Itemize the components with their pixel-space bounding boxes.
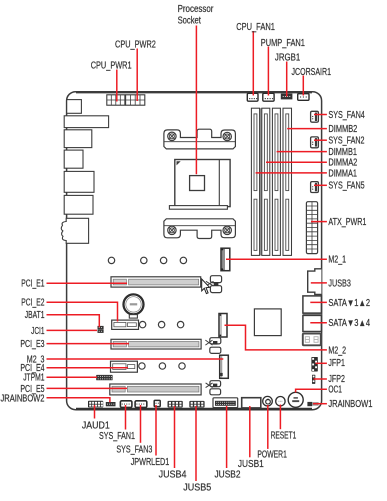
rear IO audio port xyxy=(61,218,88,243)
leader M2_3 xyxy=(47,358,224,360)
connector CPU_PWR2 xyxy=(126,95,145,105)
leader SYS_FAN5 xyxy=(314,184,327,186)
cpu bottom mounting bracket xyxy=(164,219,236,239)
leader PCI_E5 xyxy=(47,387,128,389)
svg-text:JPWRLED1: JPWRLED1 xyxy=(131,457,170,468)
PCI_E5 slot xyxy=(110,384,201,395)
jumper JCI1 xyxy=(98,330,104,333)
rear IO port 4 xyxy=(64,150,83,168)
leader SATA12 xyxy=(310,301,327,303)
svg-text:M2_2: M2_2 xyxy=(328,345,346,356)
leader PCI_E1 xyxy=(47,282,128,284)
leader Processor Socket xyxy=(195,26,197,175)
svg-text:JRAINBOW1: JRAINBOW1 xyxy=(328,399,372,410)
PCI_E1 slot xyxy=(111,277,201,287)
leader SATA34 xyxy=(310,322,327,324)
leader JUSB2 xyxy=(226,406,228,468)
connector JRAINBOW1 xyxy=(307,402,318,406)
PCI_E5 latch xyxy=(206,381,221,395)
svg-text:JCI1: JCI1 xyxy=(31,326,44,337)
svg-text:JUSB3: JUSB3 xyxy=(328,278,351,289)
PCI_E3 slot xyxy=(111,339,201,349)
header JFP1 xyxy=(311,357,317,372)
svg-text:JBAT1: JBAT1 xyxy=(25,310,45,321)
leader DIMMB1 xyxy=(277,151,327,153)
svg-text:PCI_E3: PCI_E3 xyxy=(20,339,44,350)
leader DIMMA1 xyxy=(256,172,327,174)
connector CPU_PWR1 xyxy=(107,95,125,105)
leader JUSB1 xyxy=(249,406,251,457)
svg-text:Socket: Socket xyxy=(178,16,202,27)
connector SATA12 xyxy=(303,296,322,313)
button RESET1 xyxy=(276,397,285,406)
PCI_E3 latch xyxy=(205,338,220,354)
svg-text:JAUD1: JAUD1 xyxy=(82,420,110,431)
connector SYS_FAN5 xyxy=(311,182,319,193)
rear IO port 1 xyxy=(67,100,82,114)
chipset xyxy=(254,309,281,336)
connector JUSB2 xyxy=(213,398,238,408)
svg-text:DIMMB1: DIMMB1 xyxy=(328,147,357,158)
SATA divider xyxy=(303,313,322,316)
connector JRGB1 xyxy=(281,94,292,99)
svg-text:POWER1: POWER1 xyxy=(257,450,287,461)
motherboard outline xyxy=(67,92,322,410)
svg-text:JFP2: JFP2 xyxy=(328,374,345,385)
leader CPU_FAN1 xyxy=(252,31,254,96)
PCI_E4 slot xyxy=(111,361,138,372)
battery BAT1 xyxy=(124,294,144,318)
M.2 connector M2_2 xyxy=(219,314,227,338)
leader PUMP_FAN1 xyxy=(267,47,269,96)
mouse cursor xyxy=(202,279,210,294)
header JFP2 xyxy=(312,375,315,384)
svg-text:ATX_PWR1: ATX_PWR1 xyxy=(328,217,366,228)
svg-text:OC1: OC1 xyxy=(328,385,342,396)
leader JCORSAIR1 xyxy=(302,76,304,96)
DIMM slots group xyxy=(251,108,291,255)
rear IO port 5 xyxy=(64,171,94,192)
leader RESET1 xyxy=(279,405,281,430)
jumper JBAT1 xyxy=(98,326,104,329)
mounting holes row 1 xyxy=(108,257,186,263)
M.2 connector M2_1 xyxy=(221,248,230,271)
leader JUSB5 xyxy=(195,406,197,481)
rear IO port 3 xyxy=(64,130,92,148)
svg-text:DIMMB2: DIMMB2 xyxy=(328,124,357,135)
leader JRGB1 xyxy=(286,62,288,97)
connector JUSB4 xyxy=(168,401,183,408)
svg-text:SYS_FAN3: SYS_FAN3 xyxy=(116,444,152,455)
leader ATX_PWR1 xyxy=(311,221,327,223)
PCI_E2 slot xyxy=(112,320,139,329)
leader JRAINBOW2 xyxy=(47,398,110,403)
svg-text:RESET1: RESET1 xyxy=(271,431,297,442)
M.2 connector M2_3 xyxy=(220,355,229,378)
leader JAUD1 xyxy=(94,405,96,419)
svg-text:DIMMA1: DIMMA1 xyxy=(328,168,357,179)
leader JRAINBOW1 xyxy=(313,403,327,405)
rear IO port 6 xyxy=(64,195,93,214)
svg-text:DIMMA2: DIMMA2 xyxy=(328,158,357,169)
leader JUSB3 xyxy=(311,282,327,284)
svg-text:JCORSAIR1: JCORSAIR1 xyxy=(292,67,332,78)
mounting holes row 3 xyxy=(139,363,186,369)
leader PCI_E4 xyxy=(47,367,129,369)
connector JCORSAIR1 xyxy=(298,94,309,101)
svg-text:JRAINBOW2: JRAINBOW2 xyxy=(1,393,45,404)
svg-text:JFP1: JFP1 xyxy=(328,358,345,369)
connector JUSB5 xyxy=(189,401,204,408)
leader SYS_FAN4 xyxy=(314,114,327,116)
mounting holes row 2 xyxy=(139,321,183,327)
leader JPWRLED1 xyxy=(155,405,157,456)
svg-text:JUSB4: JUSB4 xyxy=(159,470,187,481)
leader DIMMB2 xyxy=(287,128,327,130)
cpu top mounting bracket xyxy=(164,129,236,149)
svg-text:SYS_FAN4: SYS_FAN4 xyxy=(328,110,365,121)
leader CPU_PWR1 xyxy=(116,70,118,102)
button POWER1 xyxy=(263,396,273,406)
cpu socket xyxy=(169,160,230,210)
svg-text:SATA▼3▲4: SATA▼3▲4 xyxy=(328,318,370,329)
leader OC1 xyxy=(296,389,327,392)
leader SYS_FAN1 xyxy=(125,405,127,430)
connector SATA34 xyxy=(303,315,322,331)
svg-text:Processor: Processor xyxy=(178,4,214,15)
leader lines red xyxy=(47,26,327,482)
svg-text:CPU_PWR1: CPU_PWR1 xyxy=(91,61,132,72)
rear IO port 2 xyxy=(64,116,108,128)
PCI_E1 latch xyxy=(206,276,222,293)
leader JFP1 xyxy=(316,362,327,364)
leader DIMMA2 xyxy=(266,161,327,163)
svg-text:PUMP_FAN1: PUMP_FAN1 xyxy=(261,38,305,49)
svg-text:SATA▼1▲2: SATA▼1▲2 xyxy=(328,298,370,309)
svg-text:JUSB5: JUSB5 xyxy=(183,483,211,494)
leader M2_2 xyxy=(225,325,327,350)
connector SYS_FAN2 xyxy=(311,137,319,148)
connector JPWRLED1 xyxy=(154,400,160,406)
leader JTPM1 xyxy=(47,376,98,378)
connector JUSB1 xyxy=(242,398,261,408)
connector JRAINBOW2 xyxy=(106,402,116,406)
leader JUSB4 xyxy=(174,406,176,468)
leader PCI_E3 xyxy=(47,343,130,345)
svg-text:SYS_FAN2: SYS_FAN2 xyxy=(328,136,364,147)
svg-text:PCI_E2: PCI_E2 xyxy=(21,298,44,309)
leader POWER1 xyxy=(267,405,269,449)
svg-text:JUSB2: JUSB2 xyxy=(215,470,241,481)
leader CPU_PWR2 xyxy=(136,49,138,102)
svg-text:JRGB1: JRGB1 xyxy=(275,53,300,64)
leader JBAT1 xyxy=(47,315,100,328)
connector JAUD1 xyxy=(88,401,103,408)
connector SYS_FAN3 xyxy=(135,401,147,408)
connector JUSB3 xyxy=(308,269,322,295)
connector SYS_FAN1 xyxy=(120,401,131,408)
leader JCI1 xyxy=(47,329,98,331)
debug LED display xyxy=(303,334,321,346)
connector SYS_FAN4 xyxy=(311,111,319,122)
leader PCI_E2 xyxy=(47,302,118,321)
leader SYS_FAN2 xyxy=(314,139,327,141)
svg-text:SYS_FAN1: SYS_FAN1 xyxy=(99,431,135,442)
leader M2_1 xyxy=(226,258,327,260)
svg-text:SYS_FAN5: SYS_FAN5 xyxy=(328,181,364,192)
connector CPU_FAN1 xyxy=(247,93,258,101)
connector PUMP_FAN1 xyxy=(263,93,274,101)
leader JFP2 xyxy=(314,378,327,380)
header JTPM1 xyxy=(96,375,112,380)
svg-text:M2_1: M2_1 xyxy=(328,255,346,266)
svg-text:CPU_FAN1: CPU_FAN1 xyxy=(236,22,275,33)
svg-text:JTPM1: JTPM1 xyxy=(23,373,44,384)
knob OC1 xyxy=(288,392,303,407)
leader SYS_FAN3 xyxy=(140,405,142,443)
svg-text:PCI_E1: PCI_E1 xyxy=(21,279,44,290)
svg-text:CPU_PWR2: CPU_PWR2 xyxy=(115,40,156,51)
connector ATX_PWR1 xyxy=(306,202,317,254)
